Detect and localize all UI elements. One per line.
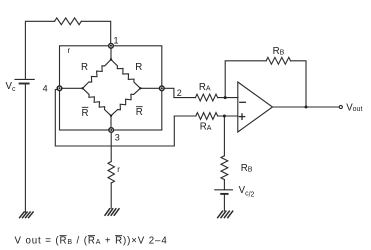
svg-text:1: 1 — [114, 36, 119, 46]
svg-text:R: R — [82, 108, 89, 119]
svg-text:R: R — [135, 62, 142, 73]
svg-text:R: R — [136, 107, 143, 118]
svg-text:R: R — [81, 62, 88, 73]
svg-text:RB: RB — [241, 163, 253, 174]
svg-text:r: r — [117, 165, 120, 174]
svg-text:RA: RA — [200, 122, 212, 133]
svg-text:4: 4 — [43, 84, 48, 94]
svg-text:Vc: Vc — [6, 81, 16, 93]
svg-text:Vout: Vout — [346, 103, 362, 114]
svg-text:RA: RA — [199, 82, 211, 93]
svg-text:2: 2 — [177, 88, 182, 98]
svg-text:3: 3 — [115, 132, 120, 142]
svg-text:r: r — [68, 46, 71, 55]
svg-text:V out = (RB / (RA + R))×V 2–4: V out = (RB / (RA + R))×V 2–4 — [15, 236, 168, 247]
svg-text:RB: RB — [273, 46, 285, 57]
svg-text:Vc/2: Vc/2 — [239, 185, 255, 199]
